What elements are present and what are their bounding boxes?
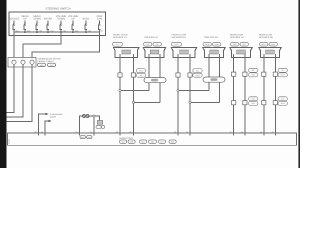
ovals B21 B25 rear LH	[231, 42, 239, 46]
ovals B121 B125 rear RH	[260, 42, 268, 46]
svg-text:UP: UP	[23, 18, 27, 21]
oval D107 speaker RH	[172, 42, 182, 46]
pin numbers 40 41 at audio unit	[35, 130, 44, 133]
wire TW1 joint to tie	[148, 83, 150, 91]
steering switch box SW1 outline	[9, 12, 106, 36]
combination switch spiral cable box M30	[8, 58, 36, 68]
svg-text:B6: B6	[282, 69, 284, 72]
svg-text:REAR DOOR: REAR DOOR	[230, 33, 244, 36]
wires from steering switch to spiral cable	[14, 32, 100, 57]
common bus wire inside SW1	[14, 31, 100, 33]
wire SP2 plus	[177, 54, 179, 135]
svg-text:SPEAKER RH: SPEAKER RH	[259, 36, 274, 39]
svg-text:DOWN: DOWN	[33, 18, 41, 21]
switch S4 ENTER	[47, 21, 49, 33]
connector circle pair on wire	[83, 115, 86, 118]
wire SP4 minus	[274, 54, 276, 135]
wire SP3 plus	[233, 54, 235, 135]
connector oval labels front RH	[193, 69, 202, 73]
connector ovals M30 M5	[38, 63, 56, 66]
svg-text:D8: D8	[147, 43, 149, 46]
ovals D8 D9 tweeter LH	[144, 42, 152, 46]
wire SP4 plus	[263, 54, 265, 135]
wire joint circle down to audio unit	[93, 117, 95, 135]
wire TW1 minus into joint	[159, 54, 161, 78]
switch S6 VOLUME UP	[72, 21, 74, 33]
resistor value micro text row	[16, 29, 104, 32]
switch S8 DISP	[98, 21, 100, 33]
svg-text:M43: M43	[121, 141, 124, 144]
speaker box labels	[113, 33, 274, 39]
svg-text:52: 52	[174, 130, 176, 133]
svg-text:TWEETER LH: TWEETER LH	[144, 36, 159, 39]
oval labels rear row1	[249, 68, 288, 77]
svg-text:M45: M45	[88, 136, 91, 139]
tweeter RH wide connector J2	[203, 77, 225, 82]
wire T2 down and left off page	[7, 64, 24, 117]
svg-text:49: 49	[272, 130, 274, 133]
box SP3 rear speaker LH	[230, 48, 252, 58]
svg-text:53: 53	[186, 130, 188, 133]
wire SP2 minus	[189, 54, 191, 135]
svg-text:B123: B123	[281, 102, 285, 105]
speaker wires down to audio unit	[120, 54, 275, 135]
vertical text at band left edge	[8, 138, 11, 144]
box TW1 tweeter LH	[143, 48, 165, 58]
svg-text:B117: B117	[262, 43, 266, 46]
svg-text:D2: D2	[140, 74, 142, 77]
svg-text:M30: M30	[40, 64, 44, 67]
joint connector circle LH plus	[119, 89, 121, 91]
svg-text:48: 48	[260, 130, 262, 133]
svg-text:B117: B117	[281, 74, 285, 77]
switch S5 VOLUME DOWN	[60, 21, 62, 33]
wire audio unit pin up to To illumination arrow 2	[45, 121, 49, 135]
switch S2 MENU UP	[24, 21, 26, 33]
wire horizontal run y116	[79, 116, 99, 135]
wire TW2 plus into joint	[208, 54, 210, 77]
wires below spiral cable exiting to left page edge	[7, 64, 33, 121]
inline connector squares front speakers	[118, 73, 192, 77]
svg-text:D109: D109	[215, 43, 219, 46]
wire tie y90.5 RH	[178, 90, 209, 92]
wire steering pin1 down to spiral cable T1	[13, 32, 15, 57]
svg-text:B20: B20	[281, 98, 284, 101]
wire tie y102.3 RH	[190, 101, 220, 103]
inline connector squares rear speakers row1	[232, 72, 278, 76]
wire TW2 minus into joint	[219, 54, 221, 77]
wire SP1 plus to audio unit	[119, 54, 121, 135]
wire SP1 minus to audio unit	[132, 54, 134, 135]
wire TW2 joint to tie	[208, 83, 210, 91]
inner connector blocks in boxes	[122, 50, 274, 54]
svg-text:AUDIO UNIT: AUDIO UNIT	[119, 137, 133, 140]
wire TW2 minus to tie	[219, 83, 221, 103]
svg-text:CAM: CAM	[97, 18, 102, 21]
svg-text:ENTER: ENTER	[44, 18, 53, 21]
oval labels rear row2	[249, 97, 288, 106]
illumination branch wires from audio unit	[39, 114, 49, 135]
svg-text:D102: D102	[195, 74, 199, 77]
svg-text:D9: D9	[156, 43, 158, 46]
left black letterbox bar	[0, 0, 7, 168]
terminal circle T2	[21, 60, 25, 64]
svg-text:61: 61	[90, 130, 92, 133]
svg-text:FRONT DOOR: FRONT DOOR	[172, 33, 187, 36]
right black edge line	[298, 0, 300, 168]
label COMBINATION SWITCH (SPIRAL CABLE)	[38, 58, 62, 64]
svg-text:60: 60	[76, 130, 78, 133]
inline connector squares rear speakers row2	[232, 101, 278, 105]
switch S1 SOURCE	[13, 21, 15, 33]
svg-text:M47: M47	[160, 141, 163, 144]
wire SP3 minus	[244, 54, 246, 135]
svg-text:SPEAKER LH: SPEAKER LH	[230, 36, 244, 39]
svg-text:(SPIRAL CABLE): (SPIRAL CABLE)	[38, 60, 54, 63]
svg-text:56: 56	[130, 130, 132, 133]
svg-text:M13: M13	[196, 69, 199, 72]
wire T3 down and left off page	[7, 64, 33, 121]
terminal circle T1	[12, 60, 16, 64]
switch S3 MENU DOWN	[36, 21, 38, 33]
box SP2 front door speaker RH	[171, 48, 196, 58]
svg-text:M45: M45	[130, 141, 133, 144]
svg-text:COMBINATION SWITCH: COMBINATION SWITCH	[38, 58, 62, 61]
box TW2 tweeter RH	[203, 48, 225, 58]
wire tie y90.5 LH	[120, 90, 149, 92]
wire TW1 minus to tie	[159, 83, 161, 102]
svg-text:M46: M46	[151, 141, 154, 144]
svg-text:B69: B69	[252, 74, 255, 77]
wire steering pin3 step to spiral cable T3	[32, 32, 100, 57]
box SP1 front door speaker LH	[114, 48, 139, 58]
svg-text:D7: D7	[116, 43, 118, 46]
ovals D108 D109 tweeter RH	[203, 42, 211, 46]
oval D7 speaker LH	[113, 42, 123, 46]
svg-text:B75: B75	[252, 102, 255, 105]
ground circuit wire over audio unit	[79, 115, 99, 136]
svg-text:UP: UP	[71, 18, 75, 21]
joint connector circle on ground run	[93, 115, 95, 117]
switch labels row	[9, 15, 103, 20]
svg-text:FRONT DOOR: FRONT DOOR	[113, 33, 128, 36]
audio unit band box bottom edge	[8, 145, 297, 147]
svg-text:TWEETER RH: TWEETER RH	[204, 36, 219, 39]
svg-text:M48: M48	[171, 141, 174, 144]
terminal pin digits under boxes	[117, 58, 278, 61]
eight switch symbols with resistors inside SW1	[13, 21, 101, 33]
svg-text:SPEAKER LH: SPEAKER LH	[113, 36, 127, 39]
wire tie y102.3 LH	[133, 101, 159, 103]
tiny pin numbers above band	[76, 130, 274, 133]
arrowhead 2	[49, 120, 52, 122]
svg-text:41: 41	[41, 130, 43, 133]
svg-text:M44: M44	[141, 141, 144, 144]
svg-text:40: 40	[35, 130, 37, 133]
box SP4 rear speaker RH	[259, 48, 281, 58]
wire T1 down and left off page	[7, 64, 15, 112]
svg-text:B19: B19	[252, 98, 255, 101]
joint connector circle RH minus	[189, 101, 191, 103]
svg-text:SOURCE: SOURCE	[9, 18, 20, 21]
wire TW1 plus into joint	[148, 54, 150, 78]
svg-text:B69: B69	[233, 43, 236, 46]
svg-text:DOWN: DOWN	[57, 18, 65, 21]
svg-text:M43: M43	[81, 136, 84, 139]
svg-text:REAR DOOR: REAR DOOR	[259, 33, 273, 36]
arrowhead 1	[46, 113, 49, 115]
svg-text:55: 55	[116, 130, 118, 133]
connector ovals above boxes	[113, 42, 278, 46]
svg-text:SPEAKER RH: SPEAKER RH	[172, 36, 187, 39]
joint connector circle LH minus	[132, 101, 134, 103]
capacitor connector ovals	[96, 125, 105, 128]
svg-text:system: system	[50, 116, 57, 119]
svg-text:D107: D107	[174, 43, 178, 46]
tweeter LH wide connector J1	[144, 78, 166, 83]
capacitor C1 body	[97, 121, 102, 125]
svg-text:M5: M5	[50, 64, 53, 67]
svg-text:B119: B119	[271, 43, 275, 46]
speaker boxes	[114, 48, 282, 58]
svg-text:M12: M12	[139, 69, 142, 72]
wire audio unit pin up to To illumination arrow 1	[39, 114, 46, 135]
svg-text:50: 50	[230, 130, 232, 133]
svg-text:51: 51	[241, 130, 243, 133]
page background	[0, 0, 300, 168]
svg-text:B71: B71	[243, 43, 246, 46]
svg-text:D108: D108	[205, 43, 209, 46]
svg-text:B5: B5	[252, 69, 254, 72]
audio unit band box top and sides	[8, 133, 297, 146]
bus junction dots	[24, 31, 87, 33]
switch S7 BACK	[85, 21, 87, 33]
connector oval labels front LH	[136, 69, 202, 78]
terminal circle T3	[30, 60, 34, 64]
svg-text:BACK: BACK	[83, 18, 90, 21]
svg-text:STEERING SWITCH: STEERING SWITCH	[45, 7, 70, 10]
connector oval id micro text	[81, 43, 285, 144]
wire steering pin2 step to spiral cable T2	[23, 32, 61, 57]
joint connector circle RH plus	[177, 89, 179, 91]
